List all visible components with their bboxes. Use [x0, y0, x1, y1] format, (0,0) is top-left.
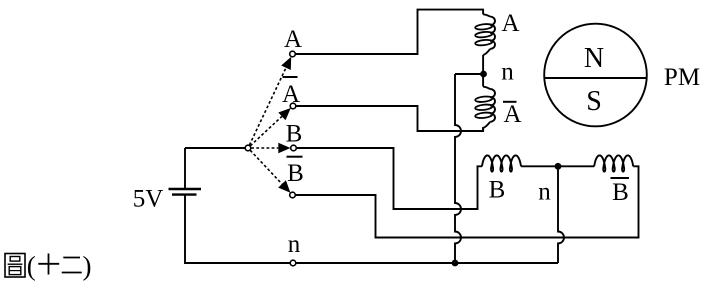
- svg-text:n: n: [288, 231, 301, 258]
- svg-text:B: B: [489, 177, 506, 204]
- svg-text:PM: PM: [664, 64, 700, 91]
- svg-text:5V: 5V: [133, 186, 164, 213]
- svg-text:A: A: [503, 101, 521, 128]
- svg-text:n: n: [538, 179, 551, 206]
- svg-text:S: S: [586, 86, 602, 117]
- svg-text:A: A: [284, 26, 302, 53]
- svg-text:n: n: [501, 59, 514, 86]
- svg-text:B: B: [612, 179, 629, 206]
- svg-text:B: B: [286, 121, 303, 148]
- svg-text:N: N: [584, 43, 604, 74]
- svg-text:A: A: [501, 10, 519, 37]
- svg-text:(: (: [27, 251, 36, 281]
- svg-text:B: B: [287, 160, 304, 187]
- svg-text:): ): [83, 251, 92, 281]
- svg-text:A: A: [282, 81, 300, 108]
